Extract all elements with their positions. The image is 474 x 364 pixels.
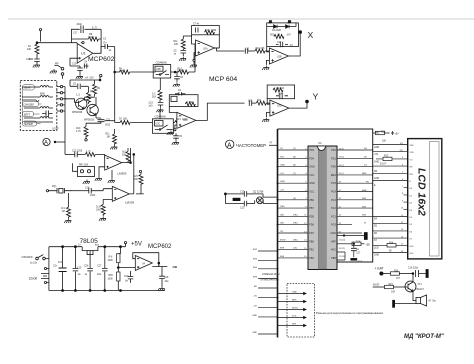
node A frequency meter	[226, 140, 234, 148]
svg-text:ГИС: ГИС	[280, 156, 285, 158]
capacitor C27	[104, 247, 106, 291]
svg-text:PD1: PD1	[331, 157, 336, 160]
battery terminals	[44, 267, 46, 269]
resistor R14 led	[387, 244, 396, 247]
capacitor C4	[84, 64, 89, 69]
svg-text:AVC: AVC	[331, 249, 336, 252]
wire bias	[183, 35, 191, 37]
svg-text:+5V: +5V	[253, 305, 257, 307]
wires transistor	[65, 97, 101, 118]
svg-text:R22 1K: R22 1K	[276, 87, 285, 90]
capacitor C14	[175, 133, 177, 136]
analog switch U3B CD4066	[153, 65, 171, 79]
svg-text:+5V: +5V	[374, 154, 379, 156]
feedback box Y	[267, 85, 294, 99]
ground comp1 a	[95, 177, 102, 181]
op-amp U2D Y	[270, 100, 289, 116]
svg-text:ARF: ARF	[331, 240, 336, 243]
svg-text:C7 4п: C7 4п	[193, 23, 200, 25]
svg-text:21 (20): 21 (20)	[339, 240, 346, 242]
trimmer box RP1	[78, 167, 95, 177]
svg-text:(15): (15)	[293, 248, 297, 250]
svg-text:Y: Y	[313, 92, 319, 102]
svg-text:(ПБ): (ПБ)	[293, 214, 298, 216]
svg-text:8: 8	[402, 193, 403, 195]
output wire comp A	[122, 148, 131, 163]
svg-text:5_П: 5_П	[92, 27, 97, 30]
wire fb left	[267, 99, 270, 105]
ground	[172, 140, 179, 144]
mcu bottom right components	[337, 233, 367, 261]
svg-text:RP1 50K: RP1 50K	[79, 165, 89, 167]
svg-text:GND: GND	[309, 166, 315, 169]
svg-text:MPS3638: MPS3638	[72, 112, 83, 114]
svg-text:10K: 10K	[123, 119, 128, 121]
capacitor C13q	[225, 193, 244, 195]
capacitor C16m	[73, 190, 89, 192]
LCD pin numbers	[400, 143, 404, 253]
wire to X stage	[217, 48, 245, 51]
coil L3	[24, 107, 53, 109]
svg-text:С27: С27	[97, 266, 102, 268]
svg-text:ZQ1: ZQ1	[52, 186, 57, 188]
svg-text:NEAR: NEAR	[24, 87, 31, 90]
pullup node	[130, 162, 132, 164]
node Y	[306, 100, 309, 103]
svg-text:LED: LED	[410, 253, 414, 255]
svg-text:GND: GND	[280, 181, 285, 183]
svg-text:U3B: U3B	[156, 69, 161, 71]
capacitor C8a	[176, 72, 178, 82]
capacitor C16	[416, 270, 427, 277]
svg-text:100K: 100K	[177, 69, 183, 72]
svg-text:20K: 20K	[122, 155, 127, 157]
svg-text:3.3М: 3.3М	[211, 30, 216, 32]
svg-text:PB7: PB7	[309, 207, 314, 210]
transistor Q1 MPS3638	[76, 98, 87, 109]
svg-text:X: X	[308, 30, 314, 40]
mcu pin wires left	[278, 150, 309, 258]
wire diode row	[267, 23, 296, 27]
LCD module box	[408, 139, 442, 259]
op-amp LM393 A	[105, 155, 122, 170]
capacitor C9	[175, 92, 185, 95]
svg-text:R13: R13	[384, 156, 389, 158]
output wire	[173, 122, 174, 124]
transistor VT1	[405, 281, 416, 292]
smd resistor	[233, 198, 240, 200]
pin wires	[57, 87, 60, 111]
svg-text:RW: RW	[410, 174, 413, 176]
+BAT node	[380, 272, 383, 275]
78L05 regulator	[82, 247, 98, 251]
svg-text:LM393: LM393	[117, 172, 127, 176]
resistor R20	[274, 35, 284, 39]
svg-text:RS: RS	[374, 171, 378, 173]
input terminal	[46, 190, 48, 192]
svg-text:U1: U1	[81, 52, 86, 56]
svg-text:A: A	[227, 142, 232, 149]
pin 3	[60, 98, 62, 100]
svg-text:1м: 1м	[78, 274, 81, 276]
svg-text:(9): (9)	[293, 198, 296, 200]
svg-text:+8 -12V: +8 -12V	[85, 77, 94, 80]
ground bar speaker	[393, 300, 395, 307]
svg-text:GND: GND	[252, 315, 257, 317]
svg-text:U2A: U2A	[203, 48, 208, 51]
power switch SA2	[36, 257, 39, 260]
rail junction dots	[62, 246, 64, 248]
svg-text:PD5: PD5	[309, 215, 314, 218]
wire fb to minus input	[192, 35, 196, 44]
svg-text:VCC: VCC	[309, 191, 314, 194]
coil L1	[22, 86, 53, 88]
capacitor C19	[79, 66, 81, 74]
svg-text:17 (18): 17 (18)	[339, 256, 346, 258]
svg-text:ATMEGA8-16AU: ATMEGA8-16AU	[262, 273, 280, 276]
wire ЧТ stub	[269, 144, 278, 146]
output wire	[215, 35, 220, 48]
svg-text:LCD 16x2: LCD 16x2	[416, 168, 428, 216]
feedback loop	[133, 253, 159, 267]
electrolytic cap C18	[364, 233, 367, 240]
output wire	[171, 71, 175, 73]
wire U1 output	[93, 47, 105, 54]
svg-text:C12: C12	[277, 42, 282, 44]
svg-text:U2D: U2D	[277, 106, 282, 108]
svg-text:VT1: VT1	[418, 284, 423, 286]
svg-text:PD6: PD6	[309, 224, 314, 227]
svg-text:PD7: PD7	[309, 232, 314, 235]
control wire	[159, 78, 161, 90]
coil L2	[22, 96, 53, 102]
svg-text:НГ Ом: НГ Ом	[429, 301, 436, 303]
ground bar	[351, 258, 357, 260]
resistor R18	[337, 243, 352, 245]
quartz resonator ZQ2	[256, 197, 263, 204]
resistor R3 input divider	[182, 36, 184, 39]
svg-text:АВЗ: АВЗ	[375, 132, 380, 135]
capacitor C24 electrolytic	[62, 247, 64, 291]
resistor R19	[255, 49, 265, 53]
output Y wire	[289, 102, 307, 109]
svg-text:(ПБ): (ПБ)	[293, 239, 298, 241]
svg-text:U2B: U2B	[277, 57, 282, 59]
feedback box U2A	[192, 26, 220, 35]
capacitor C12x	[276, 44, 288, 46]
svg-text:R14: R14	[389, 243, 394, 245]
input terminal	[40, 31, 42, 42]
resistor R13 contrast	[383, 157, 392, 160]
divider resistor RB	[117, 272, 120, 281]
svg-text:R18: R18	[356, 241, 361, 243]
pin 2	[60, 104, 62, 106]
svg-text:C17: C17	[356, 253, 361, 255]
plus input bias	[175, 125, 177, 129]
+8-12V rail	[70, 79, 100, 81]
capacitor C22	[65, 153, 75, 155]
svg-text:32 (4): 32 (4)	[339, 148, 345, 150]
left of bus stubs	[258, 251, 278, 334]
svg-text:Б 1К?: Б 1К?	[380, 164, 387, 166]
svg-text:10М: 10М	[96, 210, 101, 212]
svg-text:47м: 47м	[58, 262, 63, 264]
svg-text:31 (3): 31 (3)	[339, 157, 345, 159]
LCD pin names	[410, 145, 415, 255]
feedback box X	[267, 23, 299, 47]
svg-text:20 (21): 20 (21)	[339, 248, 346, 250]
svg-text:PC3: PC3	[331, 199, 336, 202]
svg-text:PC1: PC1	[331, 215, 336, 218]
capacitor C21	[86, 118, 105, 123]
frequency meter box outline	[278, 129, 373, 338]
diode D1	[274, 25, 278, 29]
svg-text:R13: R13	[205, 30, 210, 32]
svg-text:САМ.ВЕЛ: САМ.ВЕЛ	[24, 103, 35, 106]
svg-text:PB6: PB6	[309, 199, 314, 202]
node A	[43, 138, 50, 145]
divider resistor RA	[120, 247, 122, 254]
svg-text:RES: RES	[331, 174, 336, 177]
battery symbol	[41, 274, 49, 279]
svg-text:GND: GND	[309, 182, 315, 185]
svg-text:1М: 1М	[62, 211, 65, 213]
resistor R16	[390, 272, 399, 275]
svg-text:10К: 10К	[391, 292, 396, 294]
capacitor C25	[74, 247, 76, 291]
rail wires	[49, 247, 165, 291]
svg-text:1_П: 1_П	[86, 151, 91, 153]
resistor R7 10K	[120, 70, 156, 74]
svg-text:GND: GND	[292, 291, 297, 293]
svg-text:+5V: +5V	[395, 134, 400, 136]
svg-text:LED: LED	[374, 247, 379, 249]
svg-text:C14: C14	[278, 94, 283, 96]
svg-text:PC2: PC2	[331, 207, 336, 210]
wire to R7	[115, 71, 120, 73]
op-amp U2B X	[269, 48, 288, 64]
svg-text:ZQ 32768: ZQ 32768	[253, 191, 264, 193]
svg-text:(ПБ): (ПБ)	[280, 206, 285, 208]
svg-text:ТЕЛЛМР: ТЕЛЛМР	[24, 124, 34, 126]
analog switch U3C CD4066	[152, 119, 173, 134]
capacitor C7	[196, 28, 199, 33]
svg-text:R12: R12	[381, 132, 386, 134]
LCD inner window	[430, 142, 440, 257]
svg-text:R50: R50	[109, 275, 114, 277]
resistor R13 3.3M	[205, 30, 215, 34]
svg-text:С26: С26	[84, 266, 89, 268]
svg-text:ВЛУТ: ВЛУТ	[24, 114, 31, 116]
resistor R22	[273, 88, 283, 92]
svg-text:GND: GND	[374, 178, 379, 180]
wire divider to op-amp	[118, 267, 135, 269]
coil labels	[23, 85, 42, 127]
node X	[299, 31, 302, 34]
svg-text:+5В: +5В	[366, 244, 371, 246]
ground	[173, 82, 180, 86]
wire op-amp plus input chain	[70, 58, 80, 66]
output X wire	[288, 32, 300, 56]
svg-text:1М: 1М	[107, 137, 110, 139]
svg-text:MCP 604: MCP 604	[209, 76, 237, 83]
svg-text:C16 220р: C16 220р	[408, 268, 419, 270]
mcu left pin numbers	[304, 148, 307, 258]
plus input ground	[266, 60, 269, 65]
output wire comp B	[129, 154, 134, 194]
svg-text:C11: C11	[245, 49, 250, 51]
ISP dashed box	[287, 284, 315, 338]
capacitor C17m	[353, 244, 355, 248]
svg-text:3х14: 3х14	[96, 207, 102, 209]
capacitor C12	[29, 57, 40, 67]
svg-text:GND: GND	[374, 255, 379, 257]
pin 5	[60, 85, 62, 87]
svg-text:C17: C17	[73, 33, 78, 35]
svg-text:U3C: U3C	[156, 124, 161, 126]
ground comp1 b	[108, 179, 115, 183]
resistor R10	[85, 123, 87, 126]
svg-text:SCK: SCK	[358, 262, 363, 264]
capacitor C15	[158, 103, 164, 105]
svg-text:С28: С28	[164, 277, 169, 279]
svg-text:R16: R16	[394, 271, 399, 273]
wire fb left	[267, 47, 270, 52]
svg-text:С2+: С2+	[53, 266, 58, 268]
svg-text:VO: VO	[410, 159, 413, 161]
svg-text:PD3: PD3	[309, 149, 314, 152]
svg-text:22м: 22м	[97, 274, 102, 276]
ground	[76, 74, 83, 78]
svg-text:ПХ: ПХ	[280, 231, 284, 233]
sensor connector box	[20, 80, 57, 130]
supply bar	[426, 270, 428, 278]
svg-text:R11: R11	[174, 41, 179, 43]
mcu right pin names	[330, 149, 336, 260]
svg-text:MPS6520: MPS6520	[84, 119, 95, 121]
feedback box U2C	[169, 95, 198, 107]
svg-text:2.7K: 2.7K	[76, 131, 81, 133]
capacitor C26	[89, 251, 91, 291]
svg-text:C13: C13	[248, 100, 253, 102]
op-amp U1	[77, 42, 93, 64]
right of chip signal names	[362, 148, 370, 225]
pin 1	[60, 110, 62, 112]
svg-text:VCC: VCC	[309, 174, 314, 177]
svg-text:1м: 1м	[125, 281, 128, 283]
crystal ZQ1	[48, 188, 73, 193]
svg-text:GND: GND	[330, 232, 336, 235]
wires comp B input	[103, 189, 112, 202]
plus input terminal	[194, 53, 196, 63]
svg-text:PB5: PB5	[331, 257, 336, 260]
svg-text:29 (7): 29 (7)	[339, 173, 345, 175]
svg-text:1N4148: 1N4148	[272, 29, 281, 32]
ground trimmer	[83, 180, 90, 184]
svg-text:10K: 10K	[119, 70, 124, 73]
svg-text:100К: 100К	[108, 260, 114, 262]
svg-text:10: 10	[401, 208, 403, 210]
svg-text:Разъем для внутрисхемного прог: Разъем для внутрисхемного программирован…	[316, 311, 383, 315]
resistor R9	[94, 80, 96, 84]
resistor R5 10K	[115, 122, 120, 124]
coil L4	[24, 117, 53, 123]
svg-text:C13: C13	[240, 191, 245, 193]
output wire to Y stage	[196, 103, 245, 120]
op-amp U2C	[177, 112, 196, 128]
svg-text:PC4: PC4	[331, 191, 336, 194]
svg-text:240p: 240p	[77, 23, 83, 26]
svg-text:(ПБ): (ПБ)	[293, 223, 298, 225]
svg-text:PC0: PC0	[331, 224, 336, 227]
svg-text:12volt: 12volt	[29, 277, 38, 281]
svg-text:MCP602: MCP602	[148, 244, 172, 250]
svg-text:C16: C16	[85, 188, 90, 190]
resistor R4 51K	[158, 90, 162, 100]
resistor R23	[83, 153, 85, 155]
control wire from U3B	[159, 90, 161, 119]
left in-box signal names	[280, 148, 298, 258]
svg-text:Ж: Ж	[364, 223, 366, 225]
svg-text:1м: 1м	[356, 249, 359, 251]
svg-text:51K: 51K	[152, 97, 157, 99]
svg-text:CD4066: CD4066	[156, 60, 167, 64]
svg-text:+ БАТ: + БАТ	[375, 267, 384, 271]
pin 4	[60, 92, 62, 94]
svg-text:ON/OFF: ON/OFF	[22, 255, 33, 259]
speaker wire	[413, 291, 416, 300]
svg-text:PB1: PB1	[309, 249, 314, 252]
svg-text:МД "КРОТ-М": МД "КРОТ-М"	[404, 334, 444, 340]
svg-text:RES: RES	[292, 299, 297, 301]
resistor R11 1M	[114, 129, 116, 134]
svg-text:ВСА47: ВСА47	[417, 288, 425, 291]
svg-text:(8): (8)	[293, 165, 296, 167]
svg-text:LOOP: LOOP	[52, 129, 59, 131]
svg-text:ВЛВ: ВЛВ	[40, 94, 45, 96]
svg-text:R14: R14	[176, 118, 181, 121]
op-amp U2A	[196, 40, 215, 56]
op-amp LM393 B	[112, 186, 129, 201]
svg-text:100K: 100K	[88, 36, 94, 39]
svg-text:PD4: PD4	[309, 157, 314, 160]
svg-text:SCK: SCK	[292, 315, 297, 317]
wire fb to minus	[169, 107, 177, 113]
svg-text:VSS: VSS	[410, 145, 415, 147]
resistor R12 100K	[175, 71, 178, 73]
svg-text:RU: RU	[254, 286, 258, 288]
svg-text:LED: LED	[410, 246, 414, 248]
svg-text:С20: С20	[124, 276, 129, 278]
ground	[179, 57, 186, 61]
svg-text:9: 9	[402, 200, 403, 202]
junction	[224, 193, 226, 195]
svg-text:C21: C21	[106, 120, 111, 122]
svg-text:+5V: +5V	[280, 190, 284, 192]
svg-text:GND: GND	[374, 147, 379, 149]
capacitor C11	[245, 48, 247, 54]
isp wires with arrows	[278, 292, 307, 326]
svg-text:ENB: ENB	[362, 190, 367, 192]
svg-text:R10: R10	[76, 128, 81, 130]
wire sck	[337, 252, 345, 260]
svg-text:GND: GND	[252, 332, 257, 334]
capacitor C6	[181, 51, 187, 53]
resistor R16 2.2M	[185, 102, 195, 106]
svg-text:(ATMEGA48-DIP): (ATMEGA48-DIP)	[261, 279, 280, 282]
svg-text:R21: R21	[257, 100, 262, 102]
svg-text:1в 22п: 1в 22п	[30, 263, 38, 265]
